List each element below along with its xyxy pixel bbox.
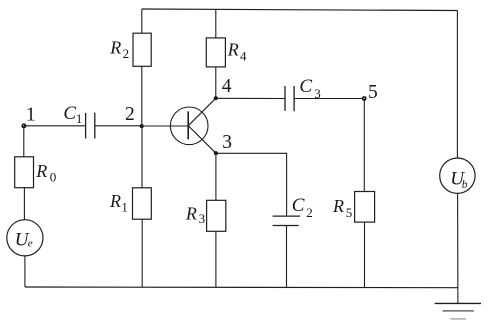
node 2 (125, 104, 144, 128)
svg-text:4: 4 (240, 48, 247, 63)
svg-text:5: 5 (368, 82, 378, 103)
svg-text:C: C (292, 195, 305, 216)
wire R2 top lead (141, 9, 143, 33)
wire Ub to ground (457, 193, 459, 303)
wire C1 to node 2 (95, 125, 142, 127)
transistor Q1 (170, 98, 216, 153)
source Ue (7, 220, 43, 256)
wire node 2 to R1 (141, 126, 143, 188)
svg-text:0: 0 (50, 169, 57, 184)
svg-text:e: e (28, 238, 33, 250)
wire R4 top lead (215, 10, 217, 38)
source Ub (440, 158, 475, 193)
resistor R2 (109, 33, 151, 66)
svg-text:3: 3 (199, 211, 206, 226)
svg-text:1: 1 (76, 111, 83, 126)
svg-text:R: R (109, 38, 121, 58)
svg-text:2: 2 (123, 46, 130, 61)
wire C2 bottom lead (286, 226, 288, 288)
resistor R4 (206, 38, 247, 67)
resistor R1 (109, 188, 151, 219)
wire node 2 to transistor base (142, 125, 189, 127)
svg-text:2: 2 (306, 205, 313, 220)
svg-text:5: 5 (346, 205, 353, 220)
svg-text:R: R (185, 204, 197, 224)
svg-text:R: R (227, 39, 239, 59)
wire Ue to bottom bus (24, 256, 26, 287)
capacitor C1 (63, 103, 94, 139)
node 1 (21, 105, 35, 129)
svg-text:4: 4 (222, 76, 232, 97)
svg-text:2: 2 (125, 104, 135, 125)
node 4 (214, 76, 232, 100)
ground (435, 303, 481, 319)
wire R2 bottom to node 2 (141, 66, 143, 126)
wire R1 bottom lead (141, 219, 143, 287)
wire node 3 down to R3 (215, 153, 217, 200)
svg-text:C: C (299, 76, 312, 97)
svg-text:1: 1 (121, 200, 128, 215)
svg-text:b: b (462, 179, 468, 191)
svg-text:C: C (63, 103, 76, 124)
capacitor C3 (285, 76, 321, 111)
wire bottom ground bus (25, 286, 458, 289)
resistor R0 (15, 157, 57, 188)
wire node 4 to C3 (216, 97, 285, 99)
svg-text:R: R (109, 191, 121, 211)
wire R5 bottom lead (364, 222, 366, 287)
wire node 1 to C1 (24, 125, 86, 127)
wire node 5 down to R5 (363, 99, 365, 192)
wire top supply bus (142, 9, 458, 11)
svg-text:1: 1 (26, 105, 36, 126)
wire node 4 up to R4 (215, 67, 217, 98)
wire node 1 down to R0 (23, 126, 25, 157)
wire node 3 right to C2 branch (216, 153, 287, 216)
wire C3 to node 5 (294, 98, 364, 100)
node 3 (214, 132, 232, 155)
node 5 (362, 82, 378, 103)
svg-text:3: 3 (222, 132, 232, 153)
svg-text:R: R (332, 196, 344, 216)
wire right supply riser (456, 11, 458, 159)
resistor R5 (332, 192, 375, 223)
svg-text:R: R (35, 161, 47, 181)
wire R0 to Ue (23, 188, 25, 220)
wire R3 bottom lead (215, 231, 217, 287)
capacitor C2 (273, 195, 313, 226)
resistor R3 (185, 200, 226, 231)
